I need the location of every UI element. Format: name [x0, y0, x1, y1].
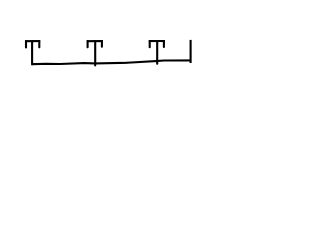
post P3 crossbar	[149, 40, 165, 42]
post P2 crossbar	[87, 40, 103, 42]
post P3 left tick	[149, 41, 151, 47]
post P3 stem	[156, 41, 158, 64]
post P1 left tick	[25, 41, 27, 48]
post P1 crossbar	[25, 40, 40, 42]
post P2 right tick	[101, 41, 103, 47]
post P2 stem	[94, 41, 96, 65]
post P2 left tick	[87, 41, 89, 47]
post P3 right tick	[163, 41, 165, 47]
post P1 right tick	[38, 41, 40, 47]
terminal stub: right vertical end line	[190, 40, 192, 63]
wire: baseline bus from post P1 to right terminal	[31, 60, 190, 64]
post P1 stem	[31, 41, 33, 64]
